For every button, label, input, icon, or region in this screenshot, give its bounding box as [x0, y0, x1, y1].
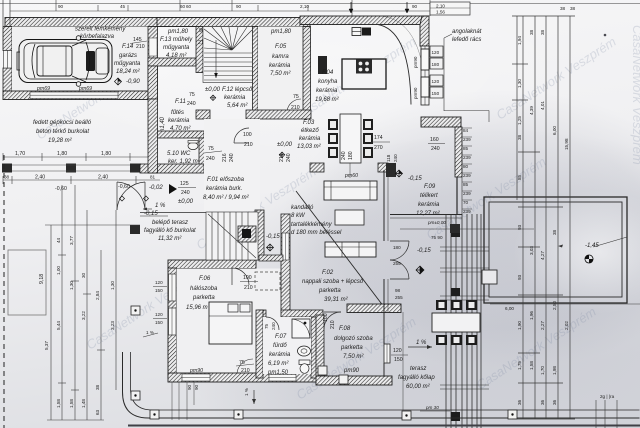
svg-text:belépő terasz: belépő terasz: [152, 220, 188, 226]
svg-text:műgyanta: műgyanta: [114, 61, 141, 67]
diagonal: [296, 191, 384, 307]
svg-text:kerámia: kerámia: [224, 95, 246, 101]
svg-text:100: 100: [323, 313, 329, 322]
svg-text:4,39: 4,39: [529, 106, 534, 115]
stairs F.12 upper winder: [203, 27, 253, 83]
left wall: [168, 268, 177, 378]
svg-text:1,94: 1,94: [517, 36, 522, 45]
svg-text:255: 255: [393, 261, 401, 266]
svg-text:120: 120: [155, 312, 163, 317]
svg-text:180: 180: [348, 151, 354, 160]
svg-text:körbefalazva: körbefalazva: [80, 34, 115, 40]
svg-text:38: 38: [95, 384, 100, 390]
svg-text:85: 85: [517, 174, 522, 180]
car: [17, 36, 112, 87]
svg-text:fagyálló kő burkolat: fagyálló kő burkolat: [144, 228, 196, 234]
svg-text:125: 125: [180, 181, 189, 187]
svg-text:F.02: F.02: [322, 270, 334, 276]
kitchen counter left: [318, 56, 327, 74]
top wall over workshop+stairs+kamra: [157, 18, 310, 27]
window schedule box top: [430, 2, 470, 15]
svg-text:műgyanta: műgyanta: [163, 45, 190, 51]
svg-text:F.12 lépcső: F.12 lépcső: [222, 87, 253, 93]
svg-text:pm1,80: pm1,80: [167, 29, 189, 35]
right corner wall turning down: [420, 16, 429, 46]
svg-text:szerelt fémkémény: szerelt fémkémény: [75, 27, 126, 33]
chimney in stair: [238, 226, 256, 242]
svg-text:75 90: 75 90: [431, 235, 443, 240]
svg-text:1,58: 1,58: [529, 361, 534, 370]
svg-text:19,68 m²: 19,68 m²: [315, 97, 340, 103]
svg-text:étkező: étkező: [301, 128, 319, 134]
svg-text:120: 120: [155, 280, 163, 285]
svg-text:1,30: 1,30: [110, 281, 115, 290]
svg-text:3,77: 3,77: [69, 236, 74, 245]
svg-text:hálószoba: hálószoba: [190, 286, 218, 292]
svg-text:6,00: 6,00: [552, 126, 557, 135]
svg-text:36: 36: [517, 399, 522, 405]
svg-text:pm±0,00: pm±0,00: [427, 220, 446, 225]
svg-text:kerámia: kerámia: [269, 352, 291, 358]
bedroom bottom wall: [168, 373, 320, 382]
wall segments between dining and living: [310, 163, 324, 172]
outdoor table: [432, 313, 480, 332]
double door to terrace: [390, 241, 409, 279]
svg-text:F.06: F.06: [199, 276, 211, 282]
svg-text:-0,15: -0,15: [408, 176, 422, 182]
bed: [209, 302, 252, 344]
door from hall: [232, 268, 249, 285]
9,18 rectangle: [8, 250, 46, 315]
radiator bedroom: [259, 255, 283, 261]
garage floor: [12, 27, 148, 92]
svg-text:d 180 mm béléssel: d 180 mm béléssel: [291, 230, 342, 236]
svg-text:CasaNetwork Veszprém: CasaNetwork Veszprém: [630, 25, 640, 165]
svg-text:216: 216: [279, 153, 285, 162]
svg-text:-0,90: -0,90: [126, 79, 140, 85]
svg-text:lefedő rács: lefedő rács: [452, 37, 481, 43]
svg-text:7,50 m²: 7,50 m²: [270, 71, 291, 77]
svg-text:1,56: 1,56: [436, 10, 445, 15]
svg-text:1,48: 1,48: [81, 399, 86, 408]
living right wall thin (glass): [383, 170, 385, 241]
carport columns: [2, 164, 12, 173]
svg-text:1,96: 1,96: [529, 311, 534, 320]
svg-text:6,00: 6,00: [505, 306, 514, 311]
kamra right wall: [303, 27, 311, 113]
svg-text:15,98: 15,98: [564, 138, 569, 150]
svg-text:pm69: pm69: [36, 86, 50, 92]
svg-text:±0,00: ±0,00: [277, 142, 293, 148]
svg-text:210: 210: [136, 44, 145, 50]
svg-text:1,58: 1,58: [69, 399, 74, 408]
dashed property line left: [3, 155, 5, 428]
section arrows top: [349, 2, 353, 13]
svg-text:80: 80: [463, 164, 469, 169]
svg-text:45: 45: [120, 4, 126, 9]
top wall: [421, 117, 461, 127]
svg-text:81: 81: [150, 175, 156, 180]
svg-text:36: 36: [540, 399, 545, 405]
curved inner corner: [378, 25, 411, 105]
east window of study: [384, 344, 390, 363]
svg-text:18,24 m²: 18,24 m²: [116, 69, 141, 75]
svg-text:pm90: pm90: [343, 368, 360, 374]
svg-text:90: 90: [236, 4, 242, 9]
svg-text:1,00: 1,00: [56, 266, 61, 275]
svg-text:240: 240: [181, 190, 190, 196]
wall between stairs and kamra: [253, 27, 259, 111]
svg-text:240: 240: [187, 101, 196, 107]
svg-text:100: 100: [243, 132, 252, 138]
sofa 1: [324, 181, 377, 200]
svg-text:3,03: 3,03: [529, 246, 534, 255]
svg-text:100: 100: [243, 275, 252, 281]
svg-text:30: 30: [81, 272, 86, 278]
garage right wall: [148, 27, 158, 100]
svg-text:239: 239: [463, 137, 471, 142]
stairs lower flight: [206, 212, 258, 260]
svg-text:90: 90: [412, 4, 418, 9]
WC right wall: [199, 138, 205, 166]
living bottom wall: [347, 304, 401, 313]
svg-text:2,10: 2,10: [300, 4, 309, 9]
top wall: [168, 260, 256, 269]
door arc from living: [324, 312, 341, 329]
svg-text:beton térkő burkolat: beton térkő burkolat: [36, 129, 89, 135]
garage top wall: [5, 18, 222, 27]
svg-text:1,75: 1,75: [517, 361, 522, 370]
svg-text:pm90: pm90: [189, 368, 203, 374]
svg-text:6,19 m²: 6,19 m²: [268, 361, 289, 367]
svg-text:239: 239: [463, 155, 471, 160]
svg-text:-0,15: -0,15: [417, 248, 431, 254]
svg-text:5,37: 5,37: [44, 341, 49, 350]
svg-text:-0,60: -0,60: [118, 184, 130, 190]
svg-text:75: 75: [264, 323, 269, 329]
svg-text:F.05: F.05: [275, 44, 287, 50]
wall below stairs/kamra (hall top): [196, 110, 210, 119]
hall door arc: [234, 128, 249, 143]
top dimension band: [0, 0, 640, 16]
svg-text:F.04: F.04: [322, 70, 334, 76]
svg-text:150: 150: [432, 91, 440, 96]
svg-text:-0,60: -0,60: [55, 186, 67, 192]
carport dim line: [3, 153, 150, 161]
svg-text:1,80: 1,80: [57, 151, 67, 157]
svg-text:9,18: 9,18: [39, 274, 45, 284]
svg-text:1,25: 1,25: [517, 116, 522, 125]
svg-text:F.08: F.08: [339, 326, 351, 332]
svg-text:2,10: 2,10: [436, 4, 445, 9]
svg-text:fűtés: fűtés: [171, 110, 184, 116]
svg-text:1,80: 1,80: [101, 151, 111, 157]
door swings below garage: [117, 182, 145, 210]
svg-text:60: 60: [180, 4, 186, 9]
svg-text:63: 63: [95, 409, 100, 415]
svg-text:terasz: terasz: [410, 366, 426, 372]
svg-text:85: 85: [463, 182, 469, 187]
svg-text:38: 38: [529, 29, 534, 35]
top wall: [300, 16, 422, 25]
svg-text:216: 216: [222, 153, 228, 162]
svg-text:90: 90: [187, 384, 192, 390]
wall below workshop: [148, 58, 196, 66]
svg-text:210: 210: [244, 285, 253, 291]
WC: [188, 142, 198, 149]
bath top wall: [258, 310, 266, 317]
svg-text:±0,00: ±0,00: [178, 199, 194, 205]
svg-text:kerámia: kerámia: [418, 202, 440, 208]
svg-text:270: 270: [374, 145, 383, 151]
svg-text:1,90: 1,90: [517, 321, 522, 330]
sink: [298, 346, 311, 356]
svg-text:nappali szoba + lépcső: nappali szoba + lépcső: [302, 279, 364, 285]
kitchen island: [342, 59, 386, 89]
svg-text:98: 98: [395, 288, 401, 293]
svg-text:kandalló: kandalló: [291, 205, 314, 211]
kamra F.05: [258, 27, 303, 111]
closet dashed: [255, 272, 280, 290]
svg-text:118: 118: [386, 154, 391, 162]
dining table: [340, 114, 361, 163]
svg-text:F.01 előszoba: F.01 előszoba: [207, 177, 245, 183]
svg-text:75: 75: [189, 92, 195, 98]
svg-text:angolaknát: angolaknát: [452, 29, 482, 35]
svg-text:5,64 m²: 5,64 m²: [227, 103, 248, 109]
svg-text:pm1,50: pm1,50: [267, 370, 289, 376]
svg-text:pm69: pm69: [78, 86, 92, 92]
glass east lines: [461, 127, 463, 214]
svg-text:1 %: 1 %: [416, 340, 427, 346]
door to bath: [266, 317, 279, 330]
svg-text:pm60: pm60: [344, 173, 358, 179]
svg-text:4,01: 4,01: [540, 101, 545, 110]
svg-text:210: 210: [330, 320, 336, 329]
svg-text:kerámia: kerámia: [299, 136, 321, 142]
svg-text:150: 150: [394, 357, 403, 363]
svg-text:F.09: F.09: [424, 184, 436, 190]
svg-text:150: 150: [155, 288, 163, 293]
svg-text:parketta: parketta: [192, 295, 215, 301]
svg-text:-0,15: -0,15: [144, 211, 158, 217]
svg-text:150: 150: [155, 320, 163, 325]
shower: [292, 319, 310, 338]
schedule numbers: [463, 128, 471, 214]
svg-text:180: 180: [393, 245, 401, 250]
svg-text:F.14: F.14: [122, 44, 134, 50]
svg-text:2,27: 2,27: [540, 321, 545, 330]
svg-text:F.07: F.07: [275, 334, 287, 340]
second dim row: [3, 176, 160, 184]
svg-text:93: 93: [517, 224, 522, 230]
svg-text:7,50 m²: 7,50 m²: [343, 354, 364, 360]
svg-text:93: 93: [517, 274, 522, 280]
svg-text:90: 90: [194, 384, 199, 390]
svg-text:160: 160: [430, 137, 439, 143]
svg-text:8 kW: 8 kW: [291, 213, 306, 219]
svg-text:210: 210: [241, 368, 250, 374]
svg-text:kerámia: kerámia: [269, 63, 291, 69]
svg-text:60,00 m²: 60,00 m²: [406, 384, 431, 390]
svg-text:1,70: 1,70: [540, 366, 545, 375]
svg-text:±0,00: ±0,00: [205, 87, 221, 93]
garage bottom wall: [3, 91, 148, 100]
left wall of living (shared with hall): [255, 210, 264, 260]
svg-text:pm90: pm90: [413, 87, 418, 99]
svg-text:5,44: 5,44: [56, 321, 61, 330]
wall between F.11 and WC: [157, 131, 204, 138]
right wall: [455, 127, 462, 177]
svg-text:239: 239: [463, 191, 471, 196]
svg-text:75: 75: [208, 146, 214, 152]
svg-text:parketta: parketta: [318, 288, 341, 294]
svg-text:konyha: konyha: [318, 79, 338, 85]
svg-text:garázs: garázs: [119, 53, 137, 59]
svg-text:84: 84: [463, 128, 469, 133]
svg-text:1,30: 1,30: [69, 281, 74, 290]
bottom boundary curves: [123, 352, 640, 418]
svg-text:240: 240: [229, 153, 235, 162]
svg-text:F.11: F.11: [175, 99, 186, 105]
sofa 2: [325, 242, 376, 257]
bath floor: [263, 317, 311, 374]
posts: [451, 228, 460, 237]
svg-text:120: 120: [432, 79, 440, 84]
svg-text:240: 240: [341, 151, 347, 160]
svg-text:240: 240: [271, 322, 276, 330]
svg-text:240: 240: [431, 146, 440, 152]
svg-text:-0,15: -0,15: [266, 234, 280, 240]
svg-text:fagyálló kőlap: fagyálló kőlap: [398, 375, 435, 381]
svg-text:pm1,80: pm1,80: [270, 29, 292, 35]
svg-text:36: 36: [552, 399, 557, 405]
svg-text:210: 210: [244, 142, 253, 148]
svg-text:2,02: 2,02: [564, 321, 569, 330]
svg-text:11,32 m²: 11,32 m²: [158, 236, 182, 242]
svg-text:kamra: kamra: [272, 54, 289, 60]
svg-text:38: 38: [4, 175, 10, 180]
svg-text:240: 240: [393, 154, 398, 162]
svg-text:38: 38: [540, 29, 545, 35]
svg-text:120: 120: [393, 348, 402, 354]
svg-text:174: 174: [374, 135, 383, 141]
svg-text:38: 38: [552, 229, 557, 235]
svg-text:kerámia: kerámia: [168, 118, 190, 124]
svg-text:60: 60: [186, 4, 192, 9]
svg-text:kerámia: kerámia: [316, 88, 338, 94]
svg-text:8,40 m² / 9,94 m²: 8,40 m² / 9,94 m²: [203, 195, 250, 201]
svg-text:3,23: 3,23: [110, 321, 115, 330]
svg-text:38: 38: [517, 134, 522, 140]
coffee table: [335, 210, 364, 225]
svg-text:tartalékkémény: tartalékkémény: [291, 222, 333, 228]
svg-text:239: 239: [463, 173, 471, 178]
svg-text:2,40: 2,40: [98, 175, 108, 181]
svg-text:fedett gépkocsi beálló: fedett gépkocsi beálló: [33, 120, 92, 126]
chimney boxes on top wall: [352, 28, 361, 36]
room floor: [177, 269, 281, 374]
svg-text:1,70: 1,70: [15, 151, 25, 157]
svg-text:kerámia burk.: kerámia burk.: [206, 186, 242, 192]
svg-text:F.03: F.03: [303, 120, 315, 126]
svg-text:255: 255: [395, 295, 403, 300]
svg-text:1 %: 1 %: [155, 203, 166, 209]
boundary markers: [131, 306, 517, 420]
svg-text:44: 44: [56, 237, 61, 243]
svg-text:2,84: 2,84: [95, 291, 100, 300]
svg-text:1,58: 1,58: [56, 399, 61, 408]
svg-text:2g | |ra: 2g | |ra: [600, 394, 615, 399]
svg-text:2,40: 2,40: [35, 175, 45, 181]
svg-text:39,31 m²: 39,31 m²: [324, 297, 349, 303]
svg-text:dolgozó szoba: dolgozó szoba: [334, 336, 373, 342]
svg-text:70: 70: [463, 200, 469, 205]
svg-text:-0,02: -0,02: [149, 185, 163, 191]
svg-text:240: 240: [206, 156, 215, 162]
wall between bed & bath: [256, 310, 263, 378]
svg-text:3,22: 3,22: [81, 311, 86, 320]
svg-text:90: 90: [58, 4, 64, 9]
svg-text:1 %: 1 %: [244, 388, 249, 396]
svg-text:parketta: parketta: [340, 345, 363, 351]
svg-text:pm 30: pm 30: [425, 405, 439, 410]
svg-text:19,28 m²: 19,28 m²: [48, 138, 73, 144]
svg-text:15,96 m: 15,96 m: [186, 305, 208, 311]
wall below WC: [140, 164, 204, 173]
garage left wall: [3, 27, 12, 51]
wc: [299, 360, 310, 365]
svg-text:13,03 m²: 13,03 m²: [297, 144, 322, 150]
svg-text:240: 240: [286, 153, 292, 162]
svg-text:239: 239: [463, 209, 471, 214]
svg-text:180: 180: [432, 62, 440, 67]
east wall with windows: [421, 46, 429, 105]
svg-text:télikert: télikert: [420, 193, 438, 199]
svg-text:5.10 WC: 5.10 WC: [167, 151, 191, 157]
svg-text:pm90: pm90: [413, 56, 418, 68]
svg-text:fürdő: fürdő: [273, 343, 287, 349]
svg-text:2,50: 2,50: [552, 301, 557, 310]
svg-text:85: 85: [463, 146, 469, 151]
svg-text:120: 120: [432, 50, 440, 55]
svg-text:1,98: 1,98: [552, 366, 557, 375]
window boxes outside: [430, 46, 443, 57]
svg-text:38: 38: [570, 6, 576, 11]
svg-text:4,27: 4,27: [540, 251, 545, 260]
svg-text:38: 38: [560, 6, 566, 11]
svg-text:1,30: 1,30: [517, 79, 522, 88]
stair room left wall: [196, 27, 203, 73]
svg-text:F.13 műhely: F.13 műhely: [160, 37, 193, 43]
